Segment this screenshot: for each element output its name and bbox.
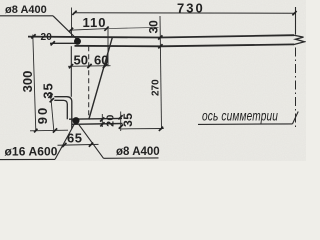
svg-text:65: 65 — [67, 131, 82, 146]
svg-text:730: 730 — [177, 1, 205, 16]
svg-text:20: 20 — [105, 114, 117, 127]
svg-text:110: 110 — [83, 15, 107, 30]
svg-text:90: 90 — [35, 106, 50, 124]
svg-text:30: 30 — [147, 20, 161, 34]
svg-text:ø16 A600: ø16 A600 — [5, 145, 58, 159]
svg-text:60: 60 — [94, 52, 108, 67]
svg-text:ось симметрии: ось симметрии — [202, 108, 278, 124]
svg-text:35: 35 — [41, 82, 56, 98]
svg-text:ø8 A400: ø8 A400 — [5, 4, 47, 16]
svg-text:ø8 A400: ø8 A400 — [116, 146, 160, 158]
svg-text:300: 300 — [20, 71, 35, 93]
svg-text:20: 20 — [41, 32, 53, 43]
svg-text:270: 270 — [151, 79, 162, 96]
svg-text:50: 50 — [74, 52, 88, 67]
svg-text:35: 35 — [121, 113, 135, 127]
